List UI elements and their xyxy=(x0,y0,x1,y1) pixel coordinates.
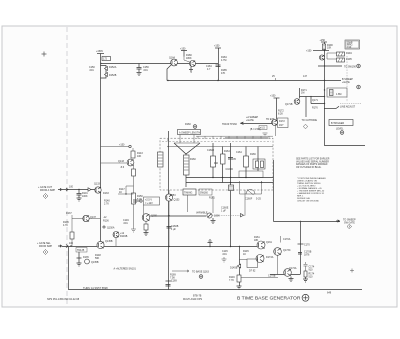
svg-text:TO BASE Q163: TO BASE Q163 xyxy=(192,270,210,273)
svg-text:5-25: 5-25 xyxy=(256,198,261,201)
junction dot top bus xyxy=(100,63,101,64)
resistor R172 label box xyxy=(102,57,111,61)
connector diamond input 2 xyxy=(43,250,48,255)
svg-text:-5.6: -5.6 xyxy=(120,166,125,169)
ground under R146 xyxy=(237,286,242,289)
svg-text:C170B: C170B xyxy=(268,275,276,278)
svg-text:VARIABLE: VARIABLE xyxy=(196,212,208,215)
svg-text:C170: C170 xyxy=(304,244,310,247)
box around C160E xyxy=(239,171,263,178)
resistor R150 xyxy=(132,193,136,204)
svg-text:SEE PARTS LIST FOR EARLIER: SEE PARTS LIST FOR EARLIER xyxy=(296,158,330,161)
wire vertical x=168 xyxy=(168,131,170,290)
emitter resistor + gnd xyxy=(145,221,147,224)
svg-text:10K: 10K xyxy=(327,47,332,50)
ground under Q180 xyxy=(189,67,193,73)
wire Q153 collector xyxy=(168,190,170,194)
svg-text:+150: +150 xyxy=(320,39,326,42)
svg-text:R194: R194 xyxy=(346,52,352,55)
svg-text:1 µF: 1 µF xyxy=(221,210,226,213)
wire to D-loop xyxy=(239,259,247,261)
node junction xyxy=(125,193,126,194)
svg-text:R161: R161 xyxy=(209,197,215,200)
capacitor C160J xyxy=(211,156,216,167)
svg-text:D173A: D173A xyxy=(266,256,274,259)
svg-text:910: 910 xyxy=(214,162,219,165)
resistor R164 xyxy=(221,154,226,164)
connector diamond cathode xyxy=(303,124,307,128)
capacitor C150B xyxy=(134,199,140,203)
svg-text:MULTI-ASW-OPS: MULTI-ASW-OPS xyxy=(183,298,202,301)
TO CATHODE stub xyxy=(305,97,307,118)
svg-text:1876: 1876 xyxy=(304,254,310,257)
capacitor C170 tick xyxy=(298,243,304,245)
svg-text:C160D: C160D xyxy=(226,168,234,171)
svg-text:+150V: +150V xyxy=(96,50,103,53)
svg-text:FROM SWP: FROM SWP xyxy=(39,245,53,248)
+150V supply tick xyxy=(97,53,104,55)
svg-text:910: 910 xyxy=(309,269,314,272)
svg-text:Q174A: Q174A xyxy=(289,267,297,270)
svg-text:18K: 18K xyxy=(254,239,259,242)
node +150 xyxy=(129,145,131,147)
tunnel diode TD160 circle xyxy=(272,120,278,126)
svg-text:LEVEL: LEVEL xyxy=(336,128,344,131)
svg-text:LINE ADJUST: LINE ADJUST xyxy=(340,106,356,109)
R176 loop xyxy=(311,97,325,104)
diode pair bracket xyxy=(101,66,107,79)
diode disconnect xyxy=(241,214,244,217)
dashed linkage SWP MAG xyxy=(346,56,348,102)
svg-text:+150: +150 xyxy=(270,95,276,98)
ground above bus x=210 xyxy=(208,240,213,247)
svg-text:R136: R136 xyxy=(103,220,109,223)
svg-text:CIRCUIT ON GROUND: CIRCUIT ON GROUND xyxy=(297,201,319,203)
svg-text:C160J: C160J xyxy=(207,149,215,152)
svg-text:B TIME BASE GENERATOR: B TIME BASE GENERATOR xyxy=(237,296,301,301)
wire Q173C emitter xyxy=(277,255,279,274)
svg-text:7.7K: 7.7K xyxy=(229,279,234,282)
transistor Q133 xyxy=(95,187,101,193)
capacitor plates x=168 xyxy=(166,285,171,287)
wire y=138 to arrow xyxy=(225,137,268,139)
box D173 loop xyxy=(247,259,258,268)
svg-text:D152A: D152A xyxy=(109,66,117,69)
svg-text:180K: 180K xyxy=(186,57,192,60)
svg-text:A +ALTERED SN101: A +ALTERED SN101 xyxy=(114,268,137,271)
svg-text:10K: 10K xyxy=(137,155,142,158)
wire Q145A emitter xyxy=(115,238,117,247)
wire Q153 emitter down xyxy=(168,201,170,246)
svg-text:TO SW190: TO SW190 xyxy=(344,66,356,69)
capacitor C101 to ground xyxy=(77,190,82,202)
+150 tick at 184 xyxy=(181,51,187,57)
wire input row y=246 xyxy=(62,246,257,248)
diode D135 to ground xyxy=(77,252,82,266)
diode D145 on x=239 xyxy=(239,246,240,247)
transistor Q143 xyxy=(127,159,134,166)
label boxes below xyxy=(183,189,196,195)
wire y=274.5 xyxy=(270,274,300,276)
wire step R147 xyxy=(118,186,134,194)
capacitor C170A stub xyxy=(280,236,282,243)
svg-text:B TRIGGER: B TRIGGER xyxy=(331,122,344,125)
TO HORIZ arrow xyxy=(172,270,189,272)
ground xyxy=(137,73,142,76)
svg-text:C170A: C170A xyxy=(283,238,291,241)
transistor Q164 xyxy=(171,59,178,66)
svg-text:TD135: TD135 xyxy=(77,249,85,252)
variable resistor R160E xyxy=(207,213,212,218)
svg-text:510: 510 xyxy=(309,276,314,279)
svg-text:Q150A: Q150A xyxy=(107,227,115,230)
svg-text:2.7K: 2.7K xyxy=(104,203,109,206)
svg-text:D135: D135 xyxy=(83,256,89,259)
resistor R143 xyxy=(131,151,135,158)
svg-text:Q153: Q153 xyxy=(174,199,181,202)
svg-text:TO CATHODE: TO CATHODE xyxy=(302,119,318,122)
svg-text:.001: .001 xyxy=(222,253,227,256)
capacitor C164 xyxy=(228,158,233,160)
B SWEEP label xyxy=(324,80,325,81)
+150 tick at 218 xyxy=(215,47,221,49)
funnel stubs xyxy=(179,135,181,144)
svg-text:100K: 100K xyxy=(82,195,88,198)
inner bus lines xyxy=(168,146,273,148)
transistor Q173C xyxy=(274,248,282,256)
label box B=1.5 xyxy=(259,126,267,130)
diode D145B symbol xyxy=(237,264,240,268)
wire and ground x=133.5 xyxy=(131,218,136,232)
dark boxed comp on x=231 xyxy=(229,185,234,191)
node Q150A xyxy=(103,226,105,228)
funnel xyxy=(174,143,200,154)
resistor pair R166 box xyxy=(253,159,265,169)
gnd below Q174A xyxy=(289,277,294,282)
svg-text:D152B: D152B xyxy=(109,74,117,77)
svg-text:R176: R176 xyxy=(312,107,318,110)
transistor Q150 xyxy=(142,214,150,222)
svg-text:Q164: Q164 xyxy=(169,57,176,60)
svg-text:Q145B: Q145B xyxy=(105,240,113,243)
svg-text:TD160 TP160: TD160 TP160 xyxy=(222,123,238,126)
svg-text:Q137: Q137 xyxy=(90,216,97,219)
registration cross top-left xyxy=(42,52,47,57)
svg-text:Q143: Q143 xyxy=(118,160,125,163)
svg-text:R166: R166 xyxy=(250,153,256,156)
wire to EXT HORIZ xyxy=(318,65,342,67)
svg-text:.001: .001 xyxy=(89,69,94,72)
svg-text:NPS 051-1459-099 04-22-68: NPS 051-1459-099 04-22-68 xyxy=(47,298,80,301)
svg-text:100K: 100K xyxy=(214,215,220,218)
+150 tick top of x=324 xyxy=(321,41,327,43)
svg-text:Q135B: Q135B xyxy=(91,261,99,264)
svg-text:= +12V: = +12V xyxy=(145,202,153,205)
svg-text:147: 147 xyxy=(303,75,308,78)
wire y=277 xyxy=(241,277,278,279)
wire bus y=80.5 xyxy=(167,80,324,82)
svg-text:+150: +150 xyxy=(214,45,220,48)
capacitor C156 to ground xyxy=(137,64,142,73)
resistor R144 xyxy=(132,169,136,176)
junction dot bus xyxy=(167,80,168,81)
svg-text:TIMING: TIMING xyxy=(184,192,193,195)
transistor Q171B xyxy=(294,99,300,105)
wire y=123 xyxy=(243,123,272,125)
svg-text:7.5K: 7.5K xyxy=(170,277,175,280)
svg-text:.001: .001 xyxy=(123,222,128,225)
feedback box xyxy=(327,88,347,97)
svg-text:SW GATE: SW GATE xyxy=(344,222,355,225)
A SWEEP label box xyxy=(178,130,201,135)
ground under C145 xyxy=(222,257,227,262)
junction dots on bus xyxy=(230,246,231,247)
wire junction row y=177.5 xyxy=(186,177,273,179)
wire vertical x=273 xyxy=(273,160,275,222)
node x=79 xyxy=(78,189,79,190)
box TD160 xyxy=(278,118,289,128)
wire bottom bus y=290 xyxy=(69,247,363,290)
wire from 184 down to Q180 xyxy=(184,57,190,63)
capacitor C160B xyxy=(167,227,172,229)
svg-text:Q171: Q171 xyxy=(312,99,319,102)
transistor Q145B xyxy=(97,241,104,248)
svg-text:4.7K: 4.7K xyxy=(63,224,68,227)
capacitor C174 / resistor R174 chain xyxy=(305,262,307,264)
ground under R174 xyxy=(303,277,308,282)
junction dot x=300 xyxy=(300,221,301,222)
wire top bus y=63.5 xyxy=(101,63,219,65)
transistor Q174A xyxy=(284,269,292,277)
svg-text:C160F: C160F xyxy=(245,198,253,201)
switch SW160 contact rail xyxy=(196,136,273,139)
wire y=216 xyxy=(150,215,206,217)
wire y=96 xyxy=(300,96,325,98)
svg-text:RANGES OF PARTS MARKED: RANGES OF PARTS MARKED xyxy=(296,163,328,166)
svg-text:+GATE: +GATE xyxy=(246,119,254,122)
resistor R165 xyxy=(244,156,249,167)
svg-text:+150: +150 xyxy=(119,144,125,147)
ground under R161 xyxy=(211,218,216,224)
svg-text:56K: 56K xyxy=(95,257,100,260)
svg-text:Q171B: Q171B xyxy=(285,103,293,106)
svg-text:R149B: R149B xyxy=(120,235,128,238)
wire junction row y=182.5 xyxy=(186,182,273,184)
svg-text:SW160: SW160 xyxy=(200,192,209,195)
svg-text:172: 172 xyxy=(103,58,108,61)
svg-text:+150: +150 xyxy=(180,48,186,51)
dashed linkage to SW160 xyxy=(212,215,245,217)
R171 vertical xyxy=(299,88,301,99)
connector diamond input 1 xyxy=(43,194,48,199)
svg-text:.001: .001 xyxy=(143,69,148,72)
svg-text:D? 92: D? 92 xyxy=(249,270,256,273)
arrow input 2 xyxy=(58,245,62,247)
transistor Q145A xyxy=(113,232,119,238)
node at reference box xyxy=(140,200,142,202)
svg-text:+150: +150 xyxy=(306,50,312,53)
wire input row y=189 xyxy=(62,189,95,191)
svg-text:1N?: 1N? xyxy=(279,124,284,127)
transistor Q135B xyxy=(85,259,90,264)
svg-text:8.2K: 8.2K xyxy=(278,113,283,116)
svg-text:VALUES AND SERIAL NUMBER: VALUES AND SERIAL NUMBER xyxy=(296,160,329,163)
svg-text:=1.5: =1.5 xyxy=(260,127,265,130)
note box SWP MAG xyxy=(345,40,360,49)
wire vertical x=239 xyxy=(239,247,241,287)
svg-text:100: 100 xyxy=(69,186,74,189)
transistor Q161 xyxy=(257,241,265,249)
svg-text:+GATE: +GATE xyxy=(342,81,350,84)
svg-text:FROM A SWP: FROM A SWP xyxy=(40,189,56,192)
wire to Q143 base xyxy=(101,162,128,164)
svg-text:C164: C164 xyxy=(236,151,242,154)
wire left vertical x=100.5 xyxy=(100,54,102,249)
wire x=187.5 xyxy=(187,195,189,212)
transistor Q180 xyxy=(190,61,196,67)
svg-text:47K: 47K xyxy=(221,72,226,75)
transistor Q137 xyxy=(83,215,89,221)
resistor R146 xyxy=(237,275,241,282)
+150 tick x=276 xyxy=(274,97,280,99)
wire right bus x=324 xyxy=(325,42,366,146)
transistor Q190 xyxy=(319,55,324,60)
svg-text:R137: R137 xyxy=(66,212,72,215)
svg-text:A SWEEP LENGTH: A SWEEP LENGTH xyxy=(179,131,200,134)
left boxed resistor xyxy=(158,152,164,167)
resistor R137 xyxy=(70,232,74,239)
arrow input 1 xyxy=(58,188,62,190)
svg-text:C169: C169 xyxy=(171,280,177,283)
svg-text:Q173C: Q173C xyxy=(283,249,291,252)
wire emitter to y=80.5 xyxy=(167,65,172,81)
svg-text:Q161: Q161 xyxy=(266,241,273,244)
wire R137 branch xyxy=(71,215,73,232)
svg-text:100: 100 xyxy=(69,242,74,245)
timing branches xyxy=(213,143,258,246)
svg-text:1K: 1K xyxy=(119,191,122,194)
fold dashed line xyxy=(66,27,68,306)
wire mid out y=221 xyxy=(274,221,341,223)
TO SWEEP arrow right xyxy=(336,220,340,222)
wire x=245 xyxy=(244,190,246,216)
svg-text:THRU JA SN57 5698: THRU JA SN57 5698 xyxy=(83,286,108,290)
hatched resistor boxes xyxy=(337,52,345,56)
svg-text:1 µF: 1 µF xyxy=(171,228,176,231)
svg-text:TD EXT: TD EXT xyxy=(266,118,275,121)
wire vertical x=300 xyxy=(300,222,302,275)
diode D133 xyxy=(88,188,91,191)
svg-text:1M: 1M xyxy=(301,92,304,95)
ground x=265 xyxy=(263,133,268,136)
svg-text:D133: D133 xyxy=(103,192,109,195)
timing resistor R160 xyxy=(184,155,190,175)
capacitor C170B plates xyxy=(298,253,302,255)
wire vertical x=276 top xyxy=(276,98,278,120)
svg-text:4.7M: 4.7M xyxy=(221,59,226,62)
trimmer loop xyxy=(240,181,262,194)
wire to node +150 xyxy=(101,146,131,148)
line adjust row xyxy=(324,108,336,110)
wire Q137 connections xyxy=(72,218,83,220)
wire Q143 emitter xyxy=(133,165,135,169)
svg-text:R164: R164 xyxy=(224,150,230,153)
node x=71 xyxy=(70,245,71,246)
svg-text:Q133: Q133 xyxy=(94,183,101,186)
junction dot xyxy=(217,80,218,81)
tunnel diode TD135 label box xyxy=(76,248,87,253)
B TRIGGER LEVEL box xyxy=(329,120,353,126)
svg-text:R160: R160 xyxy=(185,123,191,126)
junction dots x=168 xyxy=(167,139,168,140)
svg-text:B153: B153 xyxy=(170,194,176,197)
svg-text:OR OUTLINED IN BLUE.: OR OUTLINED IN BLUE. xyxy=(296,167,322,169)
svg-text:649: 649 xyxy=(327,292,332,295)
transistor D173A below xyxy=(256,255,264,263)
svg-text:1.8M: 1.8M xyxy=(336,93,341,96)
svg-text:R160: R160 xyxy=(190,158,196,161)
R? vertical at 213 xyxy=(212,196,214,213)
svg-text:X10: X10 xyxy=(347,46,352,49)
wire vertical x=218 xyxy=(218,48,220,81)
svg-text:D145B: D145B xyxy=(230,267,238,270)
transistor Q153 xyxy=(165,194,172,201)
svg-text:1K: 1K xyxy=(243,253,246,256)
plus mark xyxy=(350,269,354,273)
capacitor C169 tick xyxy=(166,280,172,282)
wire box to Q150 xyxy=(143,205,145,214)
svg-text:D172: D172 xyxy=(279,120,285,123)
